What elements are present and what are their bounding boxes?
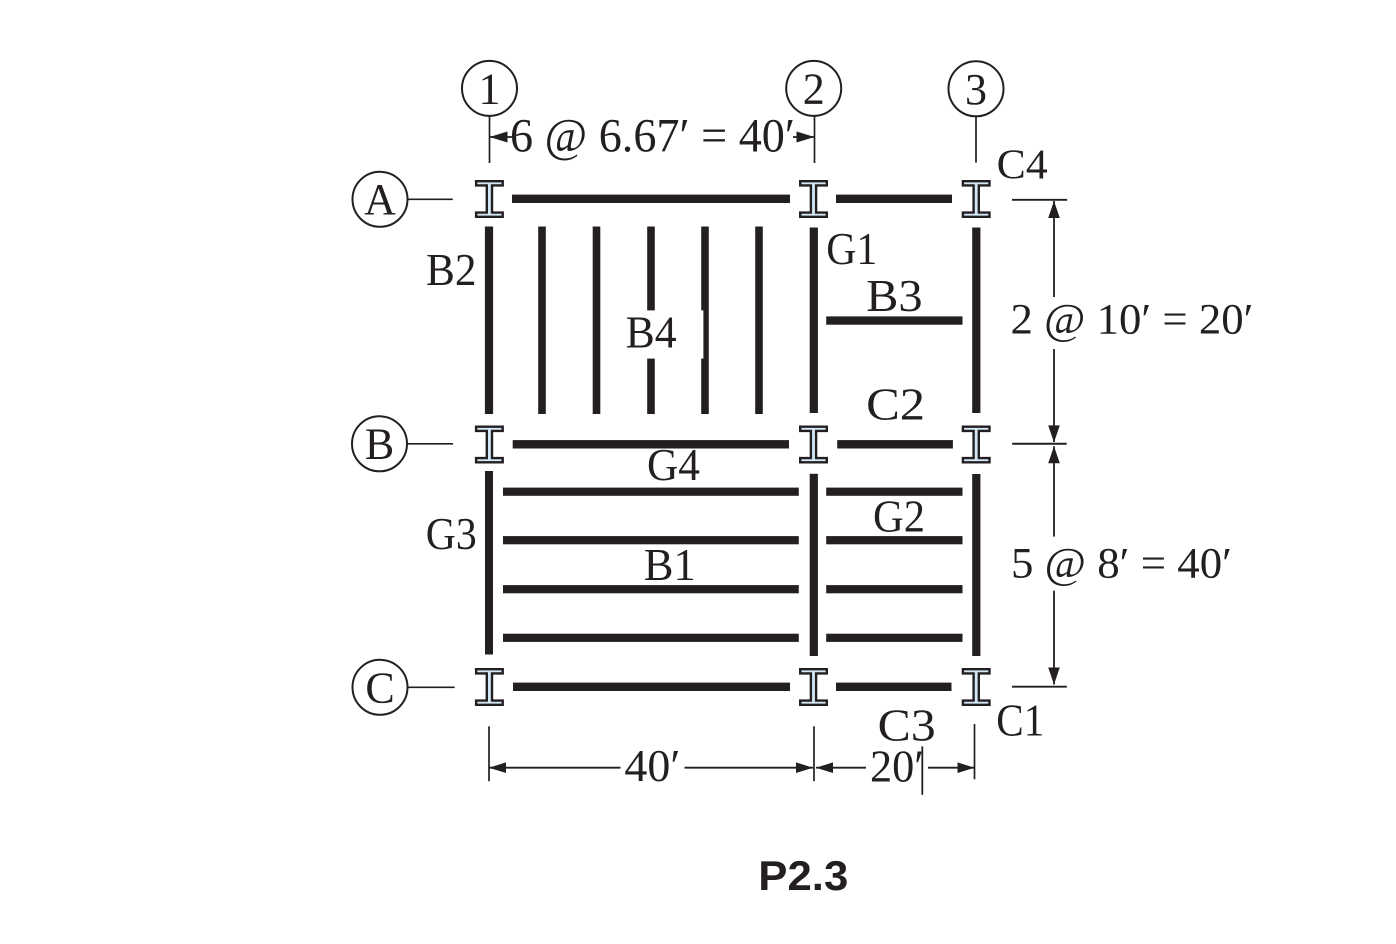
svg-text:G2: G2 [873,491,925,542]
bottom dimension extension line grid 3 [974,724,976,779]
grid bubble 1 [462,61,517,116]
leader line bubble A [408,198,453,200]
top dimension extension line grid 2 [814,116,816,163]
beam B2 on grid 1 A-B [485,227,493,415]
column I-beam B3 [963,427,990,463]
joist G2 panel no.2 [826,536,962,544]
svg-text:C1: C1 [996,695,1044,746]
grid 3 beam B-C [972,474,980,656]
leader line bubble C [408,686,455,688]
grid bubble 3 [949,61,1004,116]
right dimension line lower segment b [1053,591,1055,685]
column I-beam A2 [800,181,827,217]
right dimension middle down arrow [1048,425,1060,442]
girder G1 on grid 2 A-B [810,228,818,414]
right dimension line upper segment b [1053,349,1055,442]
svg-text:5 @ 8′ = 40′: 5 @ 8′ = 40′ [1011,541,1232,588]
svg-text:P2.3: P2.3 [758,852,848,899]
svg-text:G1: G1 [826,223,877,274]
joist B4 no.5 [755,227,763,415]
column I-beam B1 [476,427,503,463]
svg-text:G4: G4 [647,439,700,490]
top dimension left arrow [490,132,513,143]
right dimension middle up arrow [1048,446,1060,463]
bottom dimension left arrow 40' [489,762,621,773]
column I-beam C2 [800,669,827,705]
bottom dimension stray extension line [921,746,923,794]
bottom dimension extension line grid 1 [488,726,490,781]
joist B4 no.3 [647,227,655,415]
joist B1 no.4 [503,634,799,642]
top dimension right arrow [793,132,815,143]
column I-beam C3 [963,669,990,705]
column I-beam A3 [963,181,990,217]
joist G2 panel no.1 [826,488,962,496]
svg-text:2 @ 10′ = 20′: 2 @ 10′ = 20′ [1011,297,1254,344]
right dimension bottom tick [1012,686,1067,688]
column I-beam C1 [476,669,503,705]
joist B4 no.2 [593,227,601,415]
beam C2 row B 2-3 [837,440,953,448]
row A beam 2-3 [836,195,952,203]
column I-beam B2 [800,427,827,463]
column I-beam A1 [476,181,503,217]
svg-text:B3: B3 [866,270,923,321]
leader line bubble B [407,443,453,445]
beam B3 [826,316,962,324]
bottom dimension extension line grid 2 [813,726,815,781]
bottom dimension right arrow 20' [928,762,975,773]
joist G2 panel no.4 [826,634,962,642]
grid bubble A [353,172,408,227]
svg-text:1: 1 [479,65,501,114]
row A beam 1-2 [512,195,790,203]
svg-text:A: A [364,175,396,224]
right dimension bottom down arrow [1048,668,1060,685]
row C beam 1-2 [513,683,790,691]
label B4 white backing [622,310,703,358]
right dimension top up arrow [1048,201,1060,218]
bottom dimension right arrow 40' [685,762,814,773]
top dimension extension line grid 1 [489,116,491,163]
svg-text:B4: B4 [626,307,677,358]
svg-text:20′: 20′ [870,741,924,792]
svg-text:3: 3 [965,65,987,114]
right dimension middle tick [1012,443,1066,445]
grid bubble B [352,416,407,471]
grid 2 beam B-C [810,474,818,656]
svg-text:B1: B1 [644,539,696,590]
svg-text:C2: C2 [866,379,925,430]
svg-text:6 @ 6.67′ = 40′: 6 @ 6.67′ = 40′ [510,110,795,163]
joist B4 no.4 [701,227,709,415]
right dimension top tick [1012,199,1067,201]
svg-text:G3: G3 [426,508,477,559]
svg-text:B2: B2 [426,244,477,295]
row C beam 2-3 [836,683,952,691]
svg-text:C: C [365,663,394,712]
svg-text:40′: 40′ [624,740,680,791]
grid bubble C [353,660,408,715]
svg-text:B: B [365,420,394,469]
girder G3 on grid 1 B-C [485,471,493,655]
right dimension line upper segment a [1053,201,1055,297]
joist G2 panel no.3 [826,585,962,593]
right dimension line lower segment a [1053,446,1055,536]
svg-text:2: 2 [803,65,825,114]
joist B1 no.2 [503,536,799,544]
joist B1 no.3 [503,585,799,593]
girder G4 row B beam 1-2 [513,440,789,448]
bottom dimension left arrow 20' [816,762,866,773]
leader line bubble 3 [975,116,977,162]
grid bubble 2 [786,61,841,116]
joist B1 no.1 [503,488,799,496]
joist B4 no.1 [538,227,546,415]
grid 3 beam A-B [972,228,980,414]
svg-text:C4: C4 [997,142,1048,188]
